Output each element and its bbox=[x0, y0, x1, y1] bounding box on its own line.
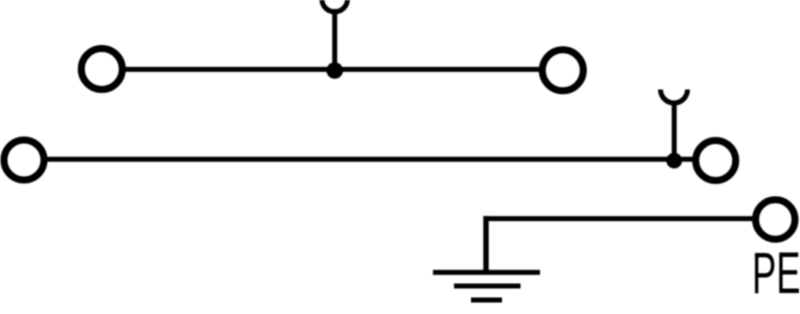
ground (earth symbol, bottom bar) bbox=[471, 298, 502, 303]
wire (middle level horizontal rail) bbox=[46, 157, 693, 162]
wire (vertical stem down to ground symbol) bbox=[483, 216, 488, 272]
ground (earth symbol, middle bar) bbox=[454, 284, 521, 289]
terminal circle (top level, left) bbox=[81, 49, 122, 90]
ground (earth symbol, top bar) bbox=[433, 270, 540, 275]
terminal circle (PE level, right) bbox=[756, 200, 795, 239]
wire (top level horizontal rail) bbox=[125, 67, 540, 72]
terminal circle (middle level, right) bbox=[696, 141, 736, 181]
junction (middle rail tap point) bbox=[666, 153, 682, 169]
wire (vertical stem from top test socket to junction) bbox=[332, 9, 337, 70]
terminal circle (middle level, left) bbox=[4, 140, 44, 180]
wire (vertical stem from middle test socket to junction) bbox=[672, 101, 677, 160]
test socket (middle tap, fork above junction) bbox=[661, 90, 688, 104]
terminal circle (top level, right) bbox=[542, 50, 583, 91]
junction (top rail tap point) bbox=[326, 62, 343, 79]
test socket (top tap, cropped at image top) bbox=[322, 0, 348, 12]
wire (PE level horizontal, from ground stem to PE terminal) bbox=[484, 216, 754, 221]
svg-text:PE: PE bbox=[752, 242, 800, 307]
